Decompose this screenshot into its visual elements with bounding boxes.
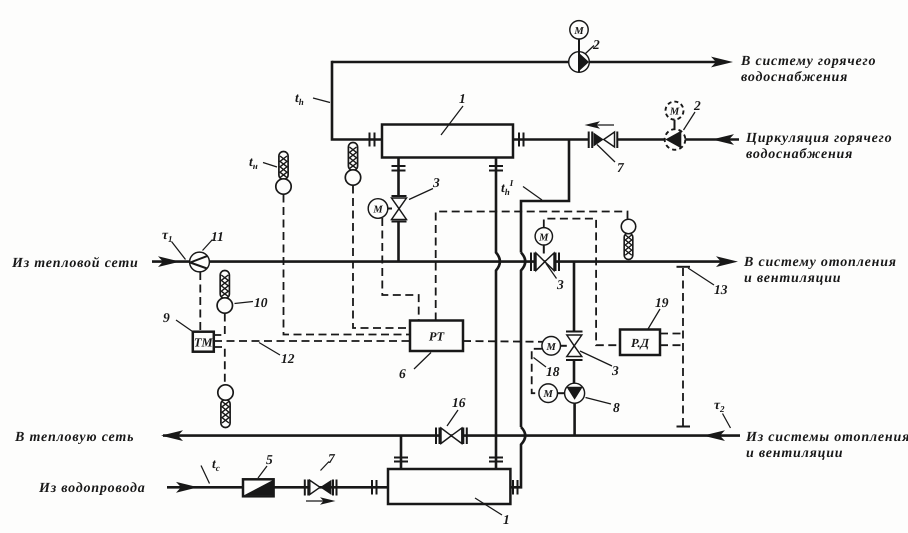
label tau1 leader [172, 242, 186, 260]
wire: dashed from TM to return-line sensor [214, 347, 225, 384]
wire: pipe from top HX bottom-right down (hop over supply line) [496, 158, 500, 470]
wire: cold water line "Из водопровода" [167, 486, 388, 489]
flange pair at bottom HX right [513, 480, 518, 495]
wire: pipe from top HX bottom-left to valve 3 [397, 158, 400, 197]
heat meter ТМ (9) [193, 332, 214, 352]
svg-text:8: 8 [613, 400, 620, 415]
label 11 leader [203, 240, 213, 251]
valve 16 (on return line) [436, 428, 467, 445]
flow arrow below check valve 7b [306, 497, 336, 505]
svg-text:Из водопровода: Из водопровода [38, 481, 146, 496]
svg-text:1: 1 [459, 91, 466, 106]
wire: heating supply line "Из тепловой сети" [152, 260, 721, 263]
label tau2 leader [723, 414, 731, 429]
label 1 leader (top HX) [441, 106, 463, 135]
svg-text:Из тепловой сети: Из тепловой сети [11, 256, 139, 271]
flange pair at top HX right [519, 133, 524, 147]
wire: dashed from M of upper valve 3 to PT top [382, 218, 418, 321]
svg-text:М: М [372, 205, 383, 216]
svg-text:2: 2 [693, 98, 701, 113]
label 5 leader [258, 466, 267, 478]
sensor 10 (supply temperature for TM) [217, 271, 232, 314]
svg-text:и вентиляции: и вентиляции [744, 271, 841, 286]
label 3 leader (lower valve) [580, 351, 612, 366]
svg-text:ТМ: ТМ [194, 335, 214, 349]
svg-text:τ2: τ2 [714, 397, 725, 414]
svg-text:М: М [669, 107, 680, 118]
valve 3 (motorized, on heating supply line) [531, 245, 559, 271]
label 16 leader [447, 410, 458, 426]
svg-text:В тепловую сеть: В тепловую сеть [14, 430, 134, 445]
label 3 leader (supply valve) [546, 264, 557, 279]
wire: dashed from DHW sensor to PT [353, 186, 410, 329]
label 10 leader [235, 302, 254, 304]
svg-text:tс: tс [212, 456, 220, 473]
wire: dashed from sensor 10 to TM right side [214, 314, 225, 336]
svg-text:10: 10 [254, 295, 268, 310]
svg-text:7: 7 [617, 160, 625, 175]
flange pair below top HX right pipe [489, 166, 503, 171]
svg-text:РТ: РТ [429, 330, 446, 344]
svg-text:Из системы отопления: Из системы отопления [745, 430, 908, 445]
temperature regulator РТ (6) [410, 321, 463, 352]
wire: circulation line right of check valve to incoming arrow [618, 138, 739, 141]
svg-text:3: 3 [611, 363, 619, 378]
valve 3 (motorized, on top HX drain pipe) [392, 196, 407, 222]
sensor in return line (for TM, inverted) [218, 385, 233, 428]
wire: top DHW outlet line to "В систему горячего водоснабжения" [332, 61, 716, 64]
svg-text:13: 13 [714, 282, 728, 297]
label 18 leader [534, 358, 547, 368]
pump 2 (circulation pump, dashed - future) [665, 129, 686, 150]
label 3 leader (upper valve) [409, 189, 433, 200]
wire: dashed from PT right to M of lower valve 3 [463, 340, 543, 343]
svg-text:tн: tн [249, 154, 258, 171]
wire: t_h^I riser hop over return line, into bottom HX right side [510, 427, 525, 487]
pump 2 (DHW supply pump) [569, 52, 590, 73]
check valve 7 (cold water line) [305, 480, 337, 496]
svg-text:В систему горячего: В систему горячего [740, 54, 876, 69]
label t_h leader [313, 98, 330, 103]
svg-text:М: М [573, 26, 584, 37]
wire: pipe from valve 3 down to supply line tee [397, 222, 400, 262]
svg-text:Р.Д: Р.Д [631, 336, 650, 350]
wire: pipe between lower valve 3 and pump 8 [573, 361, 576, 384]
svg-text:16: 16 [452, 395, 466, 410]
label 8 leader [586, 398, 612, 405]
wire: dashed pressure tap 13 down to return line [682, 268, 684, 426]
svg-text:2: 2 [592, 37, 600, 52]
flow meter 11 (on supply inlet) [190, 252, 210, 272]
flange pair below top HX left pipe [392, 166, 406, 171]
label 9 leader [176, 320, 193, 332]
wire: dashed from outdoor sensor t_H to PT [284, 195, 411, 335]
pressure regulator РД (19) [620, 330, 660, 356]
svg-text:18: 18 [546, 364, 560, 379]
svg-text:7: 7 [328, 451, 336, 466]
label 1 leader (bottom HX) [475, 498, 502, 515]
svg-text:τ1: τ1 [162, 227, 173, 244]
label t_c leader [201, 466, 210, 484]
flange pair at top HX left [370, 133, 375, 147]
label t_H leader [263, 163, 277, 168]
arrow: incoming circulation (points left) [712, 134, 734, 145]
label 7 leader (circulation check valve) [597, 145, 615, 163]
svg-text:3: 3 [556, 277, 564, 292]
label 2 leader (circulation pump) [684, 112, 696, 130]
node: tap bar 13 on supply line [677, 266, 691, 268]
flange pair above bottom HX right pipe [489, 458, 503, 462]
arrow: supply line outlet to heating system [716, 256, 738, 267]
water meter 5 [243, 479, 274, 496]
svg-text:М: М [546, 342, 557, 353]
svg-text:6: 6 [399, 366, 406, 381]
motor M of supply valve 3 [535, 228, 552, 245]
sensor at DHW outlet (near top HX) [345, 143, 360, 186]
flange pair above bottom HX left pipe [394, 458, 408, 462]
label t_h^I leader [523, 187, 542, 201]
svg-text:3: 3 [432, 175, 440, 190]
svg-text:М: М [543, 389, 554, 400]
motor M of lower valve 3 [542, 337, 567, 356]
check valve 7 (circulation line) [589, 132, 618, 149]
flange pair at bottom HX left [372, 480, 377, 495]
wire: circulation line from HX right side to right edge [513, 138, 588, 141]
wire: dashed from flowmeter 11 down to TM [199, 272, 201, 332]
wire: dashed from PT top up and to supply sensor [436, 212, 628, 321]
svg-text:М: М [538, 232, 549, 243]
svg-text:thI: thI [501, 178, 514, 197]
label 2 leader (pump 2) [586, 46, 595, 54]
svg-text:19: 19 [655, 295, 669, 310]
arrow: outlet to DHW system [711, 57, 733, 68]
svg-text:водоснабжения: водоснабжения [746, 147, 853, 162]
svg-text:Циркуляция горячего: Циркуляция горячего [745, 131, 892, 146]
heat exchanger 1 (top, DHW stage II) [382, 125, 513, 158]
flow arrow above check valve 7 [585, 121, 615, 129]
svg-text:1: 1 [503, 512, 510, 527]
svg-text:5: 5 [266, 452, 273, 467]
svg-text:В систему отопления: В систему отопления [743, 255, 897, 270]
motor M of circulation pump (dashed) [666, 102, 684, 130]
wire: dashed from M of supply valve 3 to regulator РД [544, 219, 620, 346]
wire: branch from supply line down to lower valve 3 [573, 262, 576, 331]
wire: dashed stub РД right upper [660, 333, 683, 335]
wire: DHW riser from top heat exchanger left side [332, 61, 382, 140]
wire: bottom HX left pipe up to return line [400, 436, 403, 469]
wire: dashed impulse line 12 from TM to PT [214, 340, 410, 342]
wire: dashed stub РД right lower [660, 344, 683, 346]
label 12 leader [259, 343, 280, 356]
arrow: cold water inlet (points right) [176, 482, 198, 493]
wire: t_h^I riser from circulation tee down-left [521, 140, 569, 253]
wire: t_h^I riser hop over heating supply line [521, 253, 525, 428]
wire: pipe from pump 8 down to return line [573, 403, 576, 436]
wire: dashed link 18 between motor drives [532, 349, 542, 393]
label 7 leader (water check valve) [321, 462, 330, 471]
svg-text:12: 12 [281, 351, 295, 366]
label 19 leader [648, 309, 660, 329]
arrow: return line outlet (points left) [161, 430, 183, 441]
node: tap bar at return line [677, 426, 691, 428]
svg-text:водоснабжения: водоснабжения [741, 70, 848, 85]
motor M of pump 2 [570, 21, 588, 52]
arrow: return line inlet from heating system (points left) [703, 430, 725, 441]
heat exchanger 1 (bottom, DHW stage I) [388, 469, 510, 504]
pump 8 (mixing pump) [565, 383, 585, 403]
wire: heating return line "В тепловую сеть" [163, 434, 740, 437]
motor M of pump 8 [539, 384, 565, 403]
label 13 leader [688, 268, 714, 285]
sensor t_H (outdoor temperature) [276, 152, 291, 195]
svg-text:11: 11 [211, 229, 224, 244]
svg-text:th: th [295, 90, 304, 107]
valve 3 (motorized, on mixing branch) [566, 332, 583, 361]
arrow: supply line inlet (mid-line, points right) [158, 256, 180, 267]
svg-text:9: 9 [163, 310, 170, 325]
label 6 leader [414, 353, 431, 370]
motor M of upper valve 3 [368, 199, 392, 219]
sensor on heating supply at outlet (inverted) [621, 219, 635, 259]
svg-text:и вентиляции: и вентиляции [746, 446, 843, 461]
